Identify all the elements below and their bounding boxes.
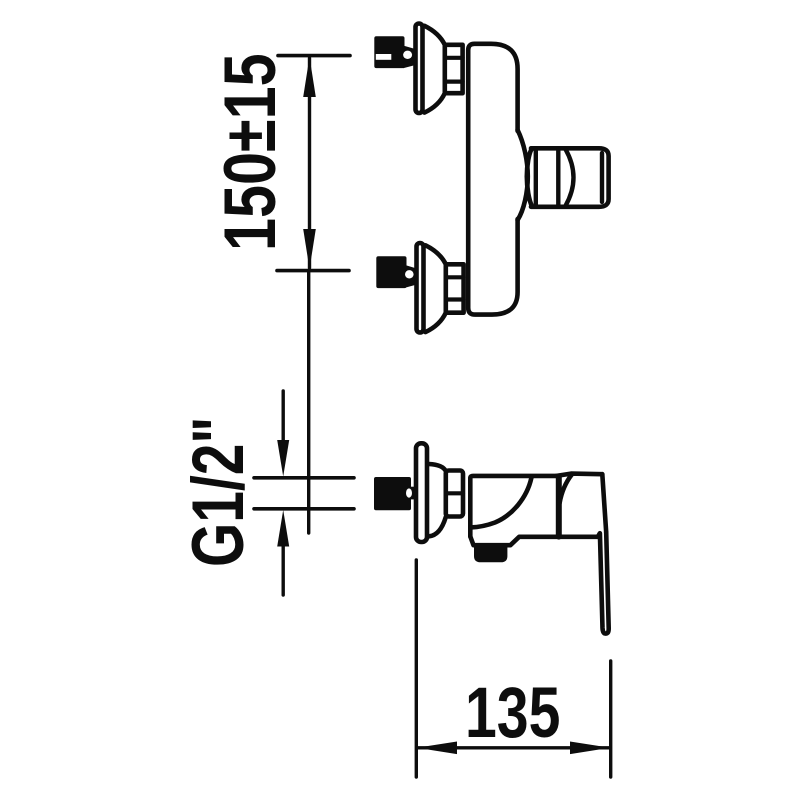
side hex nut facet line: [446, 491, 463, 495]
side lever top: [557, 474, 603, 476]
bottom union coupling nut line 2: [446, 297, 464, 301]
side coupling hex nut: [446, 471, 463, 517]
side outlet gasket: [474, 546, 507, 563]
top union coupling nut line 2: [445, 79, 463, 83]
dimension 135 left extension line: [415, 560, 418, 777]
svg-text:135: 135: [465, 672, 560, 753]
handle collar line: [534, 148, 538, 207]
top union coupling nut line 1: [445, 56, 463, 60]
dimension 135 right arrow: [570, 742, 610, 755]
dimension 135 right extension line: [609, 661, 612, 777]
side bell bottom: [429, 517, 446, 536]
top union nut slit: [376, 54, 392, 60]
bottom union coupling nut line 1: [446, 275, 464, 279]
bottom union stub hole: [405, 270, 414, 278]
top union stub: [403, 46, 414, 69]
side lever blade: [598, 532, 609, 633]
G1/2 upper dim line: [282, 391, 285, 445]
dimension 150±15 arrow up: [303, 57, 316, 97]
top union stub hole: [403, 51, 412, 59]
top union flange plate: [416, 24, 423, 114]
G1/2 upper extension line: [254, 476, 354, 480]
side bell top: [429, 464, 446, 471]
top union wall nut: [374, 36, 404, 68]
handle mid line: [556, 149, 560, 207]
G1/2 lower dim line: [282, 541, 285, 595]
bottom union flange plate: [417, 243, 424, 333]
side stub hole: [406, 488, 412, 497]
side lever rear edge: [556, 478, 562, 537]
neck handle-side curve: [527, 149, 532, 206]
dimension 150±15 top tick: [278, 54, 350, 58]
dimension 150±15 line: [308, 58, 311, 268]
side flange plate: [416, 443, 427, 542]
projection centerline: [307, 271, 310, 533]
side wall nut: [374, 477, 411, 510]
svg-text:G1/2": G1/2": [177, 417, 258, 567]
G1/2 upper arrow: [277, 440, 289, 477]
svg-text:150±15: 150±15: [210, 53, 291, 251]
bottom union bell: [426, 245, 446, 332]
bottom union wall nut: [376, 256, 406, 288]
bottom union coupling nut: [446, 264, 464, 312]
handle outline (plan): [531, 148, 609, 207]
top union bell: [425, 26, 445, 113]
neck body-side curve: [518, 130, 528, 220]
dimension 135 left arrow: [417, 742, 457, 755]
side body bottom profile: [470, 537, 598, 546]
side cartridge curve: [471, 478, 532, 528]
bottom union stub: [405, 265, 415, 288]
G1/2 lower extension line: [254, 507, 354, 511]
handle dome arc: [566, 149, 574, 206]
side lever underside diagonal: [560, 475, 572, 504]
dimension 150±15 arrow down: [303, 229, 316, 269]
G1/2 lower arrow: [277, 510, 289, 547]
dimension 150±15 bottom tick: [277, 269, 349, 273]
top union coupling nut: [445, 45, 463, 93]
side body left and top edge: [470, 476, 556, 537]
dimension 135 line: [417, 746, 610, 749]
body (plan): [468, 44, 517, 315]
handle end face line: [600, 153, 604, 202]
side cap right edge: [602, 474, 606, 532]
side stub: [407, 487, 416, 500]
